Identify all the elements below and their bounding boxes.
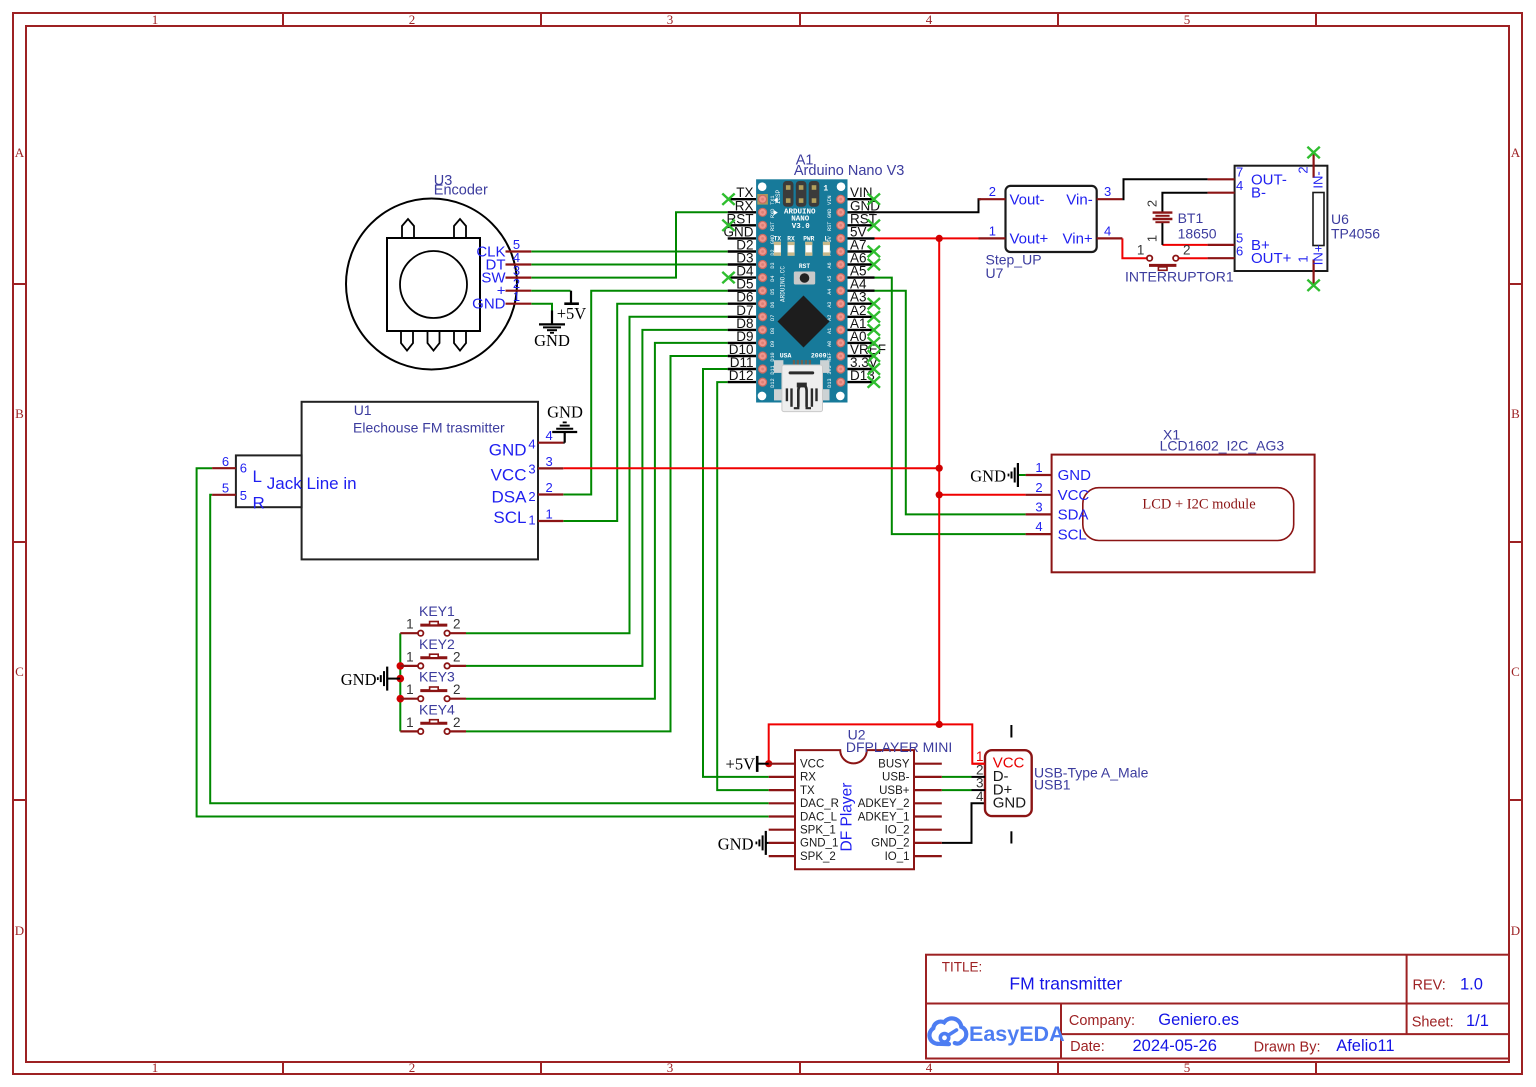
svg-text:A0: A0 xyxy=(827,341,833,347)
svg-text:GND: GND xyxy=(1058,467,1092,484)
svg-text:3: 3 xyxy=(1035,499,1042,514)
svg-text:Arduino Nano V3: Arduino Nano V3 xyxy=(794,163,904,179)
svg-text:D6: D6 xyxy=(770,302,776,308)
wire D11 to DFPlayer RX xyxy=(703,369,769,777)
svg-text:IN-: IN- xyxy=(1311,171,1326,188)
svg-text:2: 2 xyxy=(1296,166,1311,173)
title block xyxy=(926,955,1509,1059)
svg-text:1: 1 xyxy=(152,12,159,27)
junction dots on keys bus xyxy=(397,662,405,670)
wire jack R to DFPlayer DAC_R xyxy=(210,495,769,804)
svg-text:V3.0: V3.0 xyxy=(792,223,811,231)
svg-text:RX: RX xyxy=(800,772,816,784)
svg-text:EasyEDA: EasyEDA xyxy=(969,1022,1065,1046)
wire encoder GND to ground xyxy=(531,304,552,311)
svg-text:U7: U7 xyxy=(986,265,1004,281)
svg-text:6: 6 xyxy=(1236,244,1243,259)
svg-text:SPK_1: SPK_1 xyxy=(800,825,836,837)
wire StepUp Vin+ to switch xyxy=(1122,238,1147,258)
svg-text:Encoder: Encoder xyxy=(434,183,488,199)
svg-text:A3: A3 xyxy=(827,302,833,308)
svg-text:DAC_R: DAC_R xyxy=(800,798,839,810)
svg-text:4: 4 xyxy=(926,1060,933,1075)
svg-text:A: A xyxy=(15,145,25,160)
wire DT to D3 xyxy=(531,264,727,266)
wire jack L to DFPlayer DAC_L xyxy=(197,468,769,816)
svg-text:3: 3 xyxy=(546,454,553,469)
svg-text:1: 1 xyxy=(1296,255,1311,262)
svg-text:GND: GND xyxy=(993,795,1026,812)
svg-text:D13: D13 xyxy=(827,378,833,387)
U1 pin stubs xyxy=(538,442,563,444)
A1 no-connect X marks right xyxy=(868,193,880,204)
svg-text:TX1: TX1 xyxy=(770,196,776,205)
svg-text:D8: D8 xyxy=(770,328,776,334)
svg-text:4: 4 xyxy=(528,436,535,451)
svg-text:B: B xyxy=(1511,406,1520,421)
svg-text:A6: A6 xyxy=(827,262,833,268)
wire SW to RX xyxy=(531,212,727,277)
USB1 USB-Type A Male xyxy=(985,750,1032,816)
svg-text:ARDUINO.CC: ARDUINO.CC xyxy=(780,266,787,302)
Arduino Nano board image xyxy=(756,179,847,411)
U3 pin stubs xyxy=(506,250,532,252)
X1 LCD1602 I2C module xyxy=(1052,455,1315,573)
svg-text:KEY2: KEY2 xyxy=(419,636,455,652)
svg-text:RST: RST xyxy=(799,263,810,270)
svg-text:BT1: BT1 xyxy=(1178,210,1204,226)
svg-text:SCL: SCL xyxy=(1058,526,1087,543)
svg-text:+5V: +5V xyxy=(726,754,756,773)
svg-text:LCD + I2C module: LCD + I2C module xyxy=(1142,497,1255,513)
U1 Elechouse FM transmitter xyxy=(302,402,538,560)
wire Arduino GND to StepUp Vout- xyxy=(875,199,982,212)
svg-text:5: 5 xyxy=(222,480,229,495)
wire D10 to KEY4 xyxy=(466,356,728,731)
svg-text:A1: A1 xyxy=(827,328,833,334)
U2 pin stubs right xyxy=(914,763,942,765)
U7 pin stubs xyxy=(979,198,1006,200)
svg-text:SPK_2: SPK_2 xyxy=(800,851,836,863)
wire USB GND to DFPlayer GND_2 xyxy=(942,803,985,843)
svg-text:2: 2 xyxy=(409,12,416,27)
svg-text:1: 1 xyxy=(1035,460,1042,475)
svg-text:D12: D12 xyxy=(729,368,754,383)
svg-text:Sheet:: Sheet: xyxy=(1412,1014,1454,1030)
svg-text:D7: D7 xyxy=(770,315,776,321)
wire DFPlayer USB- to USB D- xyxy=(942,776,972,778)
svg-text:1: 1 xyxy=(989,223,996,238)
svg-text:R: R xyxy=(253,493,265,512)
svg-text:USB-: USB- xyxy=(882,772,910,784)
svg-text:2: 2 xyxy=(1035,480,1042,495)
EasyEDA logo xyxy=(929,1018,966,1044)
svg-text:VIN: VIN xyxy=(827,196,833,205)
svg-text:DFPLAYER MINI: DFPLAYER MINI xyxy=(846,739,952,755)
svg-text:GND: GND xyxy=(341,670,377,689)
svg-text:GND_2: GND_2 xyxy=(871,838,909,850)
svg-text:D: D xyxy=(1511,923,1520,938)
svg-text:TP4056: TP4056 xyxy=(1331,226,1380,242)
svg-text:6: 6 xyxy=(240,460,247,475)
svg-text:ICSP: ICSP xyxy=(775,189,782,204)
svg-text:DAC_L: DAC_L xyxy=(800,811,838,823)
svg-text:USA: USA xyxy=(780,352,792,359)
U6 TP4056 module xyxy=(1235,166,1328,271)
wire trunk to LCD VCC xyxy=(939,494,1025,496)
svg-text:3: 3 xyxy=(667,1060,674,1075)
svg-text:2024-05-26: 2024-05-26 xyxy=(1133,1037,1217,1055)
svg-text:1: 1 xyxy=(528,513,535,528)
svg-text:18650: 18650 xyxy=(1178,226,1217,242)
svg-text:5: 5 xyxy=(1184,12,1191,27)
svg-text:1: 1 xyxy=(1137,243,1145,258)
svg-text:4: 4 xyxy=(1236,178,1243,193)
wire battery plus to TP4056 B+ xyxy=(1162,244,1207,246)
svg-text:USB+: USB+ xyxy=(879,785,910,797)
wire D6 to U1 SCL xyxy=(563,304,727,521)
svg-text:IN+: IN+ xyxy=(1311,245,1326,266)
wire +5V vertical trunk xyxy=(938,238,940,724)
switch INTERRUPTOR1 xyxy=(1147,257,1152,259)
svg-text:GND: GND xyxy=(534,331,570,350)
ground symbol (DFPlayer GND_1) xyxy=(766,842,769,844)
svg-text:1: 1 xyxy=(152,1060,159,1075)
svg-text:ADKEY_2: ADKEY_2 xyxy=(858,798,910,810)
svg-text:4: 4 xyxy=(1104,223,1111,238)
svg-text:4: 4 xyxy=(976,789,984,804)
wire D7 to KEY1 xyxy=(466,317,728,633)
svg-text:3: 3 xyxy=(528,462,535,477)
svg-text:1: 1 xyxy=(1145,235,1160,242)
svg-text:Elechouse FM trasmitter: Elechouse FM trasmitter xyxy=(353,419,505,435)
svg-text:4: 4 xyxy=(1035,519,1042,534)
svg-text:Vout+: Vout+ xyxy=(1010,231,1049,248)
svg-text:C: C xyxy=(15,664,24,679)
svg-text:INTERRUPTOR1: INTERRUPTOR1 xyxy=(1125,269,1234,285)
svg-text:SCL: SCL xyxy=(493,508,526,527)
power flag +5V (DFPlayer) xyxy=(756,756,759,772)
svg-text:4: 4 xyxy=(546,428,553,443)
svg-text:RXD: RXD xyxy=(770,209,776,218)
U6 pin stubs xyxy=(1208,178,1235,180)
svg-text:B: B xyxy=(15,406,24,421)
svg-text:L: L xyxy=(253,467,262,486)
svg-text:Afelio11: Afelio11 xyxy=(1336,1037,1394,1055)
ground symbol (keys) xyxy=(387,678,400,680)
jack pin stubs xyxy=(212,467,236,469)
battery BT1 18650 xyxy=(1153,211,1173,213)
svg-text:GND: GND xyxy=(547,402,583,421)
wire 5V Arduino to StepUp Vout+ xyxy=(875,237,979,239)
svg-text:IO_1: IO_1 xyxy=(885,851,910,863)
wire D9 to KEY3 xyxy=(466,343,728,699)
U7 Step_UP module xyxy=(1006,186,1097,252)
svg-text:D9: D9 xyxy=(770,341,776,347)
wire switch to TP4056 OUT+ xyxy=(1178,257,1207,259)
svg-text:2: 2 xyxy=(528,489,535,504)
USB1 hidden pin marks xyxy=(1010,725,1012,738)
svg-text:Vin+: Vin+ xyxy=(1063,231,1093,248)
svg-text:Jack Line in: Jack Line in xyxy=(267,474,357,493)
wire trunk to U1 VCC xyxy=(563,467,939,469)
svg-text:PWR: PWR xyxy=(803,236,814,243)
svg-text:1: 1 xyxy=(406,715,414,730)
svg-text:VCC: VCC xyxy=(491,466,527,485)
svg-text:C: C xyxy=(1511,664,1520,679)
svg-text:2: 2 xyxy=(1183,243,1191,258)
svg-text:1.0: 1.0 xyxy=(1460,976,1483,994)
svg-text:1: 1 xyxy=(406,617,414,632)
A1 pin stubs left xyxy=(728,198,756,200)
svg-text:+5V: +5V xyxy=(557,304,587,323)
svg-text:Company:: Company: xyxy=(1069,1013,1135,1029)
svg-text:1/1: 1/1 xyxy=(1466,1012,1489,1030)
A1 pin stubs right xyxy=(848,198,875,200)
svg-text:ADKEY_1: ADKEY_1 xyxy=(858,811,910,823)
ground symbol (U1 pin 4) xyxy=(563,442,564,444)
svg-text:Date:: Date: xyxy=(1070,1039,1105,1055)
KEY3 push button xyxy=(400,698,418,700)
wire keys common bus xyxy=(399,633,401,731)
KEY1 push button xyxy=(0,0,1,1)
svg-text:TX: TX xyxy=(800,785,815,797)
wire A5 to LCD SCL xyxy=(875,278,1026,534)
svg-text:VCC: VCC xyxy=(800,759,824,771)
wire D12 to DFPlayer TX xyxy=(717,382,769,790)
svg-text:6: 6 xyxy=(222,454,229,469)
KEY4 push button xyxy=(400,730,418,732)
power flag +5V (encoder) xyxy=(570,291,572,304)
U2 DFPLAYER MINI xyxy=(795,750,914,869)
svg-text:5: 5 xyxy=(1184,1060,1191,1075)
USB1 pin stubs xyxy=(972,763,985,765)
svg-text:GND: GND xyxy=(827,209,833,218)
svg-text:2: 2 xyxy=(546,480,553,495)
svg-text:GND_1: GND_1 xyxy=(800,838,838,850)
wire battery plus lead xyxy=(1161,223,1163,245)
svg-text:DF Player: DF Player xyxy=(839,783,856,852)
svg-text:D5: D5 xyxy=(770,289,776,295)
svg-text:1: 1 xyxy=(406,649,414,664)
svg-text:2: 2 xyxy=(989,184,996,199)
svg-text:RST: RST xyxy=(770,222,776,231)
audio jack connector (U1) xyxy=(236,455,302,507)
svg-text:KEY4: KEY4 xyxy=(419,701,455,717)
svg-text:1: 1 xyxy=(823,185,828,194)
svg-text:L: L xyxy=(825,236,829,243)
U2 pin stubs left xyxy=(769,763,795,765)
wire A4 to LCD SDA xyxy=(875,291,1026,515)
wire trunk to DFPlayer VCC and USB VCC xyxy=(769,724,985,763)
svg-text:Geniero.es: Geniero.es xyxy=(1158,1011,1239,1029)
svg-text:1: 1 xyxy=(546,506,553,521)
svg-text:TITLE:: TITLE: xyxy=(942,960,983,975)
svg-text:GND: GND xyxy=(970,466,1006,485)
junction dots on +5V trunk xyxy=(936,235,943,242)
svg-text:Vout-: Vout- xyxy=(1010,191,1045,208)
svg-text:KEY1: KEY1 xyxy=(419,603,455,619)
svg-text:FM transmitter: FM transmitter xyxy=(1009,974,1122,994)
wire D5 to U1 DSA xyxy=(563,291,727,495)
svg-text:RST: RST xyxy=(827,222,833,231)
wire battery minus to TP4056 B- xyxy=(1162,193,1207,213)
svg-text:BUSY: BUSY xyxy=(878,759,910,771)
svg-text:D3: D3 xyxy=(770,262,776,268)
svg-text:2: 2 xyxy=(409,1060,416,1075)
svg-text:VCC: VCC xyxy=(1058,487,1090,504)
svg-text:A5: A5 xyxy=(827,275,833,281)
svg-text:LCD1602_I2C_AG3: LCD1602_I2C_AG3 xyxy=(1160,438,1285,454)
wire D8 to KEY2 xyxy=(466,330,728,666)
KEY2 push button xyxy=(400,665,418,667)
svg-text:1: 1 xyxy=(406,682,414,697)
svg-text:3: 3 xyxy=(1104,184,1111,199)
svg-text:DSA: DSA xyxy=(492,488,528,507)
svg-text:GND: GND xyxy=(489,441,527,460)
svg-text:U1: U1 xyxy=(354,402,372,418)
U6 no-connect X marks xyxy=(1307,147,1319,158)
svg-text:SDA: SDA xyxy=(1058,507,1089,524)
svg-text:1: 1 xyxy=(513,289,520,304)
ground symbol (encoder) xyxy=(551,311,553,325)
svg-text:GND: GND xyxy=(472,296,506,313)
wire DFPlayer USB+ to USB D+ xyxy=(942,789,972,791)
svg-text:A2: A2 xyxy=(827,315,833,321)
svg-text:GND: GND xyxy=(718,834,754,853)
wire CLK to D2 xyxy=(531,251,727,253)
svg-text:D4: D4 xyxy=(770,275,776,281)
svg-text:Drawn By:: Drawn By: xyxy=(1254,1040,1321,1056)
ground symbol (LCD) xyxy=(1018,474,1026,476)
svg-text:KEY3: KEY3 xyxy=(419,669,455,685)
svg-text:A4: A4 xyxy=(827,289,833,295)
svg-text:4: 4 xyxy=(926,12,933,27)
A1 no-connect X marks left xyxy=(722,193,734,204)
svg-text:OUT+: OUT+ xyxy=(1251,250,1292,267)
svg-text:TX: TX xyxy=(774,236,782,243)
svg-text:5: 5 xyxy=(240,488,247,503)
X1 pin stubs xyxy=(1026,474,1052,476)
svg-text:IO_2: IO_2 xyxy=(885,825,910,837)
svg-text:2: 2 xyxy=(1145,200,1160,207)
svg-text:A: A xyxy=(1511,145,1521,160)
svg-text:REV:: REV: xyxy=(1413,978,1446,994)
svg-text:USB1: USB1 xyxy=(1034,777,1071,793)
rotary encoder U3 xyxy=(346,199,517,370)
svg-text:3: 3 xyxy=(667,12,674,27)
wire encoder plus to +5V flag xyxy=(531,290,570,292)
svg-text:RX: RX xyxy=(787,236,795,243)
svg-text:B-: B- xyxy=(1251,185,1266,202)
svg-text:2009: 2009 xyxy=(811,352,827,359)
svg-text:D: D xyxy=(15,923,24,938)
wire StepUp Vin- to TP4056 OUT- xyxy=(1122,179,1207,199)
svg-text:D12: D12 xyxy=(770,378,776,387)
svg-text:Vin-: Vin- xyxy=(1066,191,1092,208)
